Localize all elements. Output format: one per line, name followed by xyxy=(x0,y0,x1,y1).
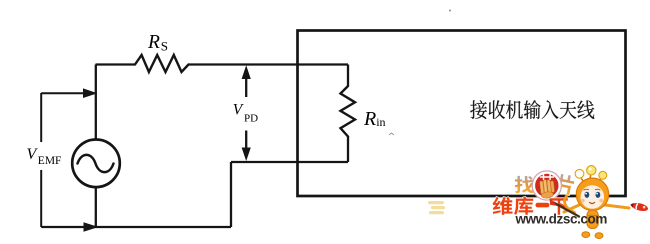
AC source V_EMF xyxy=(72,140,120,188)
wire top-left: source to R_S xyxy=(96,63,136,65)
sine wave xyxy=(78,155,114,172)
arrowhead into node A xyxy=(83,88,98,98)
svg-text:www.dzsc.com: www.dzsc.com xyxy=(515,211,608,226)
pen held by mascot xyxy=(554,203,580,217)
wire: step vertical xyxy=(230,162,232,227)
orange fist over magnifier xyxy=(540,179,556,199)
body xyxy=(587,210,598,229)
head xyxy=(576,178,608,210)
scan speck 2 xyxy=(389,133,394,135)
arrowhead on bottom wire xyxy=(84,222,99,232)
wire: source vertical lower xyxy=(95,187,97,227)
watermark text 维库一下 xyxy=(493,197,568,215)
wire: bottom return xyxy=(41,226,231,228)
wire: source vertical upper xyxy=(95,65,97,140)
scan speck 1 xyxy=(449,10,451,12)
svg-text:PD: PD xyxy=(244,113,258,125)
resistor R_in xyxy=(341,86,356,137)
svg-text:EMF: EMF xyxy=(38,155,62,167)
svg-text:V: V xyxy=(233,102,244,119)
left arm + pen xyxy=(564,205,579,212)
box U1 receiver enclosure xyxy=(298,31,626,197)
svg-text:S: S xyxy=(161,39,168,54)
wire: mid horizontal to R_in bottom xyxy=(231,161,348,163)
voltage arrow V_PD up xyxy=(245,77,247,98)
antenna bulbs xyxy=(575,169,584,178)
watermark: yellow speed dashes xyxy=(428,201,445,214)
right arm xyxy=(605,205,629,208)
svg-text:R: R xyxy=(147,32,160,53)
wire top: R_S to R_in xyxy=(189,63,349,65)
label 接收机输入天线 xyxy=(470,100,594,119)
mascot ant xyxy=(564,166,629,239)
bracket V_EMF: vertical xyxy=(40,93,42,227)
eyes xyxy=(585,192,590,198)
white top of chip char xyxy=(540,174,553,179)
bracket V_EMF: top arm wire xyxy=(41,92,86,94)
mascot arm curve over 下 xyxy=(565,196,575,213)
blush + mouth xyxy=(581,199,585,203)
antenna stems xyxy=(580,173,603,181)
red dart right of mascot xyxy=(629,201,648,212)
watermark text 找芯片 xyxy=(515,173,576,196)
svg-text:in: in xyxy=(376,115,385,129)
voltage arrow V_PD down xyxy=(245,131,247,150)
resistor R_S xyxy=(135,55,189,72)
wire: R_in bottom lead xyxy=(347,137,349,163)
svg-text:R: R xyxy=(363,108,376,130)
wire: R_in top lead xyxy=(347,65,349,87)
feet xyxy=(582,232,590,238)
watermark magnifier with 芯 xyxy=(532,171,561,200)
